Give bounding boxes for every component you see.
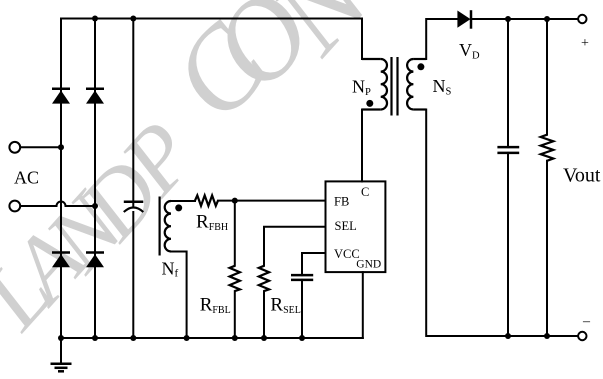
terminal output plus: [578, 15, 586, 23]
svg-text:RFBH: RFBH: [196, 212, 228, 234]
wire RFBL bottom: [234, 291, 236, 338]
diode VD output rectifier: [457, 10, 471, 29]
wire ground stub: [60, 338, 62, 364]
wire rail3 top: [132, 19, 134, 208]
wire rail2: [94, 19, 96, 339]
inductor Ns secondary winding: [407, 59, 426, 110]
node junction bottom x61: [58, 335, 64, 341]
wire Nf bottom: [171, 252, 187, 339]
node junction bottom x302: [299, 335, 305, 341]
node junction secondary top cap: [505, 16, 511, 22]
ground: [51, 364, 72, 372]
svg-text:C: C: [361, 185, 369, 199]
capacitor input filter: [124, 202, 144, 212]
svg-text:Nf: Nf: [162, 259, 179, 280]
node Np polarity dot: [366, 100, 373, 107]
wire rail1: [60, 19, 62, 339]
wire Np bottom to IC C pin: [361, 110, 363, 182]
svg-text:Vout: Vout: [563, 165, 601, 187]
wire output cap bottom: [507, 153, 509, 336]
inductor Nf auxiliary winding: [165, 201, 171, 252]
node junction bottom x186: [184, 335, 190, 341]
node junction top rail x133: [130, 16, 136, 22]
capacitor VCC bypass: [291, 275, 313, 280]
wire bottom rail primary: [61, 337, 363, 339]
terminal output minus: [578, 332, 586, 340]
watermark: [0, 0, 397, 348]
wire output resistor bottom: [546, 161, 548, 336]
svg-text:GND: GND: [356, 259, 381, 271]
node junction secondary bottom cap: [505, 333, 511, 339]
node junction secondary top res: [544, 16, 550, 22]
resistor RFBH: [195, 195, 218, 205]
core bar Nf: [159, 197, 161, 256]
resistor RSEL: [259, 266, 269, 291]
wire Ns top to diode: [426, 19, 457, 59]
node junction FB: [232, 198, 238, 204]
wire Nf top to RFBH: [171, 200, 195, 202]
wire RFBL top: [234, 201, 236, 266]
terminal AC top: [9, 142, 20, 153]
diode D4 bridge lower-right: [86, 253, 104, 268]
wire VCC pin: [302, 253, 326, 275]
node junction secondary bottom res: [544, 333, 550, 339]
svg-text:RFBL: RFBL: [200, 295, 231, 317]
wire output resistor top: [546, 19, 548, 135]
wire rail3 bottom: [132, 212, 134, 338]
svg-text:FB: FB: [334, 195, 349, 209]
wire VCC cap bottom: [301, 280, 303, 338]
node Ns polarity dot: [417, 63, 424, 70]
IC U1 controller box: [326, 181, 386, 272]
wire Ns bottom rail secondary: [426, 110, 578, 337]
node junction bottom x264: [261, 335, 267, 341]
svg-text:SEL: SEL: [335, 219, 357, 233]
wire RFBH to FB pin: [218, 200, 326, 202]
diode D3 bridge lower-left: [52, 253, 70, 268]
wire IC GND to rail: [362, 272, 364, 338]
node junction top rail x95: [92, 16, 98, 22]
node junction AC2: [92, 203, 98, 209]
svg-text:NP: NP: [352, 77, 371, 99]
node junction AC1: [58, 144, 64, 150]
resistor RFBL: [230, 266, 240, 291]
svg-text:AC: AC: [14, 168, 39, 188]
svg-text:–: –: [582, 314, 591, 329]
node junction bottom x234: [232, 335, 238, 341]
core lines transformer: [392, 57, 398, 116]
resistor load Vout: [541, 135, 554, 161]
wire SEL pin: [264, 227, 326, 266]
node Nf polarity dot: [175, 204, 182, 211]
svg-text:NS: NS: [433, 76, 452, 98]
node junction bottom x95: [92, 335, 98, 341]
svg-text:VD: VD: [459, 40, 480, 62]
svg-text:+: +: [581, 36, 589, 51]
wire output cap top: [507, 19, 509, 147]
wire diode to output plus: [471, 18, 578, 20]
wire top rail primary: [61, 19, 362, 60]
diode D2 bridge upper-right: [86, 89, 104, 104]
wire AC line1: [20, 146, 61, 148]
diode D1 bridge upper-left: [52, 89, 70, 104]
svg-text:RSEL: RSEL: [270, 295, 300, 317]
capacitor output filter: [497, 147, 519, 153]
wire RSEL bottom: [263, 291, 265, 338]
node junction bottom x133: [130, 335, 136, 341]
inductor Np primary winding: [362, 59, 387, 110]
terminal AC bottom: [9, 201, 20, 212]
wire AC line2 with hop: [20, 202, 95, 207]
